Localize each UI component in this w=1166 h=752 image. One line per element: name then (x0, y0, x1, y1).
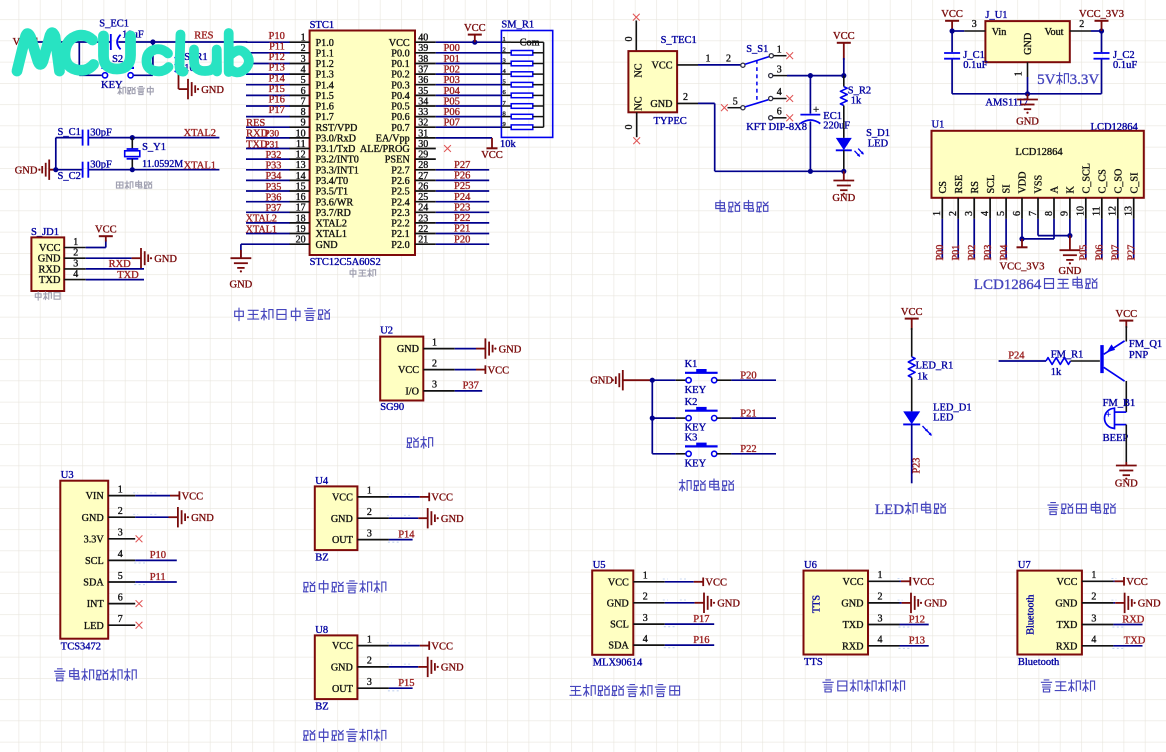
wire (246, 233, 290, 235)
svg-text:36: 36 (418, 75, 428, 86)
module U8 BZ (315, 625, 358, 713)
svg-text:GND: GND (607, 598, 629, 609)
svg-text:P01: P01 (444, 54, 460, 65)
svg-text:BZ: BZ (315, 702, 328, 713)
buzzer FM_B1 BEEP (1103, 398, 1136, 444)
svg-text:0.1uF: 0.1uF (963, 60, 987, 71)
pin 29 (415, 150, 436, 161)
svg-text:P24: P24 (454, 192, 471, 203)
svg-text:4: 4 (73, 269, 78, 280)
module U6 TTS (804, 560, 869, 668)
svg-text:28: 28 (418, 160, 428, 171)
wire keys bus (651, 380, 653, 454)
svg-text:GND: GND (1138, 599, 1161, 610)
text voice module title (823, 680, 904, 692)
svg-text:GND: GND (650, 99, 672, 110)
wire P23 (436, 211, 489, 213)
svg-text:KEY: KEY (685, 385, 707, 396)
svg-text:P3.7/RD: P3.7/RD (316, 208, 351, 219)
svg-text:P32: P32 (266, 150, 282, 161)
svg-text:VCC: VCC (901, 307, 923, 318)
wire U8 GND (389, 666, 418, 668)
pin 39 (415, 43, 436, 54)
pin 40 (415, 33, 436, 44)
svg-text:VCC: VCC (833, 31, 855, 42)
wire (246, 190, 290, 192)
svg-text:0: 0 (624, 37, 635, 42)
pin 2 (868, 592, 900, 603)
node xtal2 junction (130, 135, 135, 140)
pin 2 (357, 656, 389, 667)
svg-text:RST/VPD: RST/VPD (316, 123, 358, 134)
wire U5 GND (665, 602, 695, 604)
wire U7 VCC (1113, 580, 1114, 582)
svg-text:P21: P21 (454, 224, 470, 235)
svg-text:VCC: VCC (389, 38, 410, 49)
svg-text:VCC: VCC (332, 641, 353, 652)
svg-text:1: 1 (118, 484, 123, 495)
power VCC (buzzer) (1116, 309, 1138, 328)
ground (U8) (418, 657, 464, 677)
pin 12 (1108, 198, 1119, 219)
pin 4 (868, 635, 900, 646)
svg-text:P21: P21 (740, 408, 756, 419)
svg-text:P23: P23 (454, 203, 470, 214)
svg-text:VCC: VCC (941, 9, 963, 20)
svg-text:3: 3 (878, 613, 883, 624)
svg-text:GND: GND (82, 513, 104, 524)
wire U6 VCC (900, 580, 901, 582)
svg-text:VCC: VCC (481, 150, 503, 161)
svg-text:4: 4 (980, 211, 991, 216)
svg-text:RXD: RXD (109, 259, 132, 270)
svg-text:P2.1: P2.1 (391, 229, 409, 240)
wire P01 (436, 63, 502, 65)
svg-text:RES: RES (194, 31, 213, 42)
svg-text:RXD: RXD (842, 641, 864, 652)
svg-text:LED: LED (84, 621, 104, 632)
wire JD1 RXD (86, 268, 144, 270)
svg-text:2: 2 (301, 43, 306, 54)
ground (U2) (476, 338, 522, 358)
svg-text:P37: P37 (463, 380, 479, 391)
ground (U5) (695, 593, 741, 613)
svg-text:P07: P07 (1111, 245, 1122, 261)
svg-text:P2.0: P2.0 (391, 240, 409, 251)
svg-text:XTAL1: XTAL1 (184, 160, 216, 171)
pushbutton S_S2 KEY (101, 54, 134, 91)
resistor network SM_R1 10k (500, 19, 553, 150)
pin 10 (1076, 198, 1087, 219)
resistor S_R1 10k (175, 42, 208, 89)
wire P07 (436, 126, 502, 128)
svg-text:GND: GND (154, 254, 177, 265)
svg-text:GND: GND (1059, 266, 1082, 277)
pin 7 (108, 614, 135, 625)
wire LED top (911, 328, 913, 357)
svg-text:EA/Vpp: EA/Vpp (376, 134, 410, 145)
svg-text:17: 17 (296, 203, 306, 214)
svg-text:6: 6 (777, 107, 782, 118)
pin 2 GND (677, 92, 698, 104)
pin 3 (964, 19, 985, 31)
svg-text:18: 18 (296, 213, 306, 224)
svg-text:P22: P22 (454, 213, 470, 224)
svg-text:P06: P06 (1095, 245, 1106, 261)
node crystal gnd junction (53, 167, 58, 172)
svg-text:38: 38 (418, 54, 428, 65)
svg-text:220uF: 220uF (823, 121, 850, 132)
wire P23 (911, 424, 913, 483)
node K junction (1067, 233, 1072, 238)
svg-text:5: 5 (118, 571, 123, 582)
pin 1 (GND) (1013, 62, 1027, 77)
pin 16 (289, 192, 309, 203)
pin 34 (415, 96, 436, 107)
svg-text:INT: INT (87, 599, 105, 610)
pin 11 (1092, 198, 1103, 219)
svg-text:1k: 1k (851, 96, 862, 107)
svg-text:U2: U2 (380, 326, 393, 337)
wire U3 VCC (135, 495, 170, 497)
no connect U3 pin 7 (136, 622, 143, 629)
svg-text:P01: P01 (951, 245, 962, 261)
no connect switch pin1 (786, 52, 793, 59)
wire JD1 GND (86, 257, 132, 259)
svg-text:10k: 10k (500, 139, 517, 150)
svg-text:GND: GND (397, 344, 419, 355)
watermark MCUclub (17, 33, 249, 73)
text MCU value caption (350, 269, 375, 277)
wire key K1 left (652, 379, 686, 381)
svg-text:24: 24 (418, 203, 428, 214)
svg-text:J_U1: J_U1 (985, 10, 1007, 21)
capacitor EC1 220uF (800, 76, 850, 172)
svg-text:GND: GND (1023, 33, 1034, 55)
svg-text:S_Y1: S_Y1 (142, 142, 166, 153)
svg-text:XTAL2: XTAL2 (246, 214, 277, 225)
svg-text:P2.2: P2.2 (391, 219, 409, 230)
pin 18 (289, 213, 309, 224)
svg-text:13: 13 (1124, 206, 1135, 216)
power VCC (supply) (833, 31, 855, 60)
svg-text:1: 1 (432, 337, 437, 348)
svg-text:GND: GND (441, 663, 464, 674)
svg-text:3: 3 (503, 57, 506, 64)
svg-text:C_CS: C_CS (1097, 169, 1108, 194)
module U2 SG90 servo (380, 326, 423, 413)
svg-text:A: A (1050, 186, 1061, 194)
svg-text:35: 35 (418, 86, 428, 97)
pin 2 (948, 198, 959, 219)
ground (U7) (1115, 593, 1161, 613)
svg-text:P07: P07 (444, 118, 460, 129)
svg-text:1k: 1k (917, 372, 928, 383)
node vin junction (950, 28, 955, 33)
wire P20 (436, 243, 489, 245)
svg-text:U3: U3 (61, 470, 74, 481)
pin 36 (415, 75, 436, 86)
LED LED_D1 (903, 402, 971, 435)
pin 1 (108, 484, 135, 495)
text temperature sensor title (570, 685, 680, 697)
svg-text:VCC: VCC (431, 641, 453, 652)
power VCC (EA/Vpp) (481, 138, 503, 161)
svg-text:VCC: VCC (913, 577, 935, 588)
pin 23 (415, 213, 436, 224)
transistor FM_Q1 PNP (1100, 339, 1162, 381)
svg-text:P13: P13 (909, 636, 925, 647)
svg-text:P0.4: P0.4 (391, 91, 409, 102)
svg-text:RS: RS (970, 181, 981, 194)
svg-text:P02: P02 (444, 65, 460, 76)
wire buzzer to gnd (1125, 425, 1127, 462)
svg-text:1: 1 (367, 486, 372, 497)
no connect switch pin6 (786, 114, 793, 121)
power VCC (MCU) (464, 23, 486, 42)
svg-text:4: 4 (643, 634, 648, 645)
svg-text:C_SCL: C_SCL (1081, 163, 1092, 194)
svg-text:GND: GND (1055, 599, 1077, 610)
svg-text:P1.3: P1.3 (316, 70, 334, 81)
wire key K1 right (717, 379, 776, 381)
svg-text:9: 9 (1060, 211, 1071, 216)
svg-text:21: 21 (418, 235, 428, 246)
wire P05 (1085, 219, 1087, 259)
wire P05 (436, 105, 502, 107)
no connect U3 pin 3 (136, 535, 143, 542)
svg-text:+: + (813, 104, 819, 116)
svg-text:3: 3 (118, 528, 123, 539)
capacitor J_C2 0.1uF (1094, 31, 1138, 94)
svg-text:P2.5: P2.5 (391, 187, 409, 198)
pin 3 (964, 198, 975, 219)
svg-text:U4: U4 (315, 476, 329, 487)
wire JD1 TXD (86, 279, 144, 281)
wire P06 (436, 116, 502, 118)
wire VDD/A to 3V3 (1022, 219, 1054, 239)
svg-text:9: 9 (503, 121, 506, 128)
wire key K2 left (652, 417, 686, 419)
svg-text:0: 0 (624, 125, 635, 130)
pin 27 (415, 171, 436, 182)
node VCC rail junction (841, 73, 846, 78)
pin 38 (415, 54, 436, 65)
power VCC (U5) (694, 578, 727, 589)
wire (246, 116, 290, 118)
svg-text:TTS: TTS (812, 595, 823, 613)
svg-text:FM_R1: FM_R1 (1051, 350, 1084, 361)
svg-text:P1.6: P1.6 (316, 102, 334, 113)
display U1 LCD12864 (932, 120, 1144, 198)
svg-text:1: 1 (1091, 570, 1096, 581)
svg-text:K1: K1 (685, 359, 698, 370)
svg-text:BZ: BZ (315, 553, 328, 564)
svg-text:PNP: PNP (1129, 350, 1148, 361)
svg-text:U7: U7 (1018, 560, 1031, 571)
svg-text:P15: P15 (398, 678, 414, 689)
wire P06 (1101, 219, 1103, 259)
pin 1 (357, 634, 389, 645)
svg-text:VIN: VIN (86, 491, 105, 502)
svg-text:LCD12864: LCD12864 (974, 277, 1042, 293)
wire P27 (1133, 219, 1135, 259)
svg-text:XTAL1: XTAL1 (316, 229, 347, 240)
node gnd rail junction (1025, 91, 1030, 96)
wire P24 (436, 201, 489, 203)
svg-text:6: 6 (301, 86, 306, 97)
svg-text:4: 4 (777, 87, 782, 98)
wire P02 (973, 219, 975, 259)
svg-text:22: 22 (418, 224, 428, 235)
svg-text:P04: P04 (999, 245, 1010, 261)
power VCC (U6) (901, 577, 934, 588)
svg-text:U1: U1 (932, 120, 945, 131)
svg-text:P05: P05 (444, 96, 460, 107)
pin 2 (423, 358, 454, 369)
svg-text:P04: P04 (444, 86, 461, 97)
svg-text:SDA: SDA (83, 578, 104, 589)
wire Vin (952, 30, 964, 32)
svg-text:P10: P10 (269, 31, 285, 42)
svg-text:GND: GND (15, 166, 38, 177)
wire key K3 right (717, 453, 776, 455)
svg-text:P31: P31 (265, 140, 280, 150)
svg-text:VCC: VCC (1116, 309, 1138, 320)
svg-text:P33: P33 (266, 161, 282, 172)
pin 3 (868, 613, 900, 624)
svg-text:SCL: SCL (610, 620, 629, 631)
wire U4 GND (389, 517, 418, 519)
power VCC (reset net) (13, 37, 37, 48)
svg-text:20: 20 (296, 235, 306, 246)
svg-text:TXD: TXD (1124, 636, 1146, 647)
pin 6 (289, 86, 309, 97)
wire collector (1125, 381, 1127, 412)
node rail junction EC1 (808, 169, 813, 174)
svg-text:OUT: OUT (332, 684, 354, 695)
wire P03 (989, 219, 991, 259)
node reset junction 1 (150, 39, 155, 44)
regulator J_U1 AMS1117 (985, 10, 1069, 108)
wire VCC pin40 (436, 41, 502, 43)
svg-text:VCC: VCC (1126, 577, 1148, 588)
svg-text:1: 1 (503, 36, 506, 43)
wire VSS/K to GND (1038, 219, 1070, 236)
wire EA/Vpp (436, 137, 492, 139)
svg-text:26: 26 (418, 181, 428, 192)
svg-text:GND: GND (201, 85, 224, 96)
svg-text:P20: P20 (740, 370, 756, 381)
svg-text:16: 16 (296, 192, 306, 203)
svg-text:8: 8 (301, 107, 306, 118)
power VCC_3V3 (LCD) (1000, 239, 1045, 273)
svg-text:3: 3 (964, 211, 975, 216)
no connect switch pin5 (721, 104, 728, 111)
wire key K3 left (652, 453, 686, 455)
svg-text:GND: GND (191, 513, 214, 524)
pin 15 (289, 181, 309, 192)
pin 7 (289, 96, 309, 107)
crystal S_Y1 11.0592M (125, 138, 184, 170)
no connect pin30 (444, 145, 451, 152)
svg-text:P17: P17 (269, 105, 285, 116)
svg-text:LED_D1: LED_D1 (933, 402, 972, 413)
svg-text:C_SO: C_SO (1113, 169, 1124, 194)
svg-text:2: 2 (1079, 19, 1084, 30)
wire reset VCC to RES (37, 41, 248, 43)
svg-text:P06: P06 (444, 107, 460, 118)
svg-text:VCC: VCC (39, 243, 61, 254)
pin 33 (415, 107, 436, 118)
svg-text:MLX90614: MLX90614 (593, 657, 643, 668)
svg-text:4: 4 (878, 635, 883, 646)
module U7 Bluetooth (1017, 560, 1082, 668)
svg-text:25: 25 (418, 192, 428, 203)
wire U3 P10 (135, 559, 177, 561)
svg-text:11.0592M: 11.0592M (142, 159, 183, 170)
pin 12 (289, 150, 309, 161)
pin 3 (108, 528, 135, 539)
svg-text:P0.1: P0.1 (391, 59, 409, 70)
svg-text:S_TEC1: S_TEC1 (661, 35, 697, 46)
svg-text:4: 4 (118, 549, 123, 560)
svg-text:P1.1: P1.1 (316, 48, 334, 59)
svg-text:P13: P13 (269, 63, 285, 74)
pin 25 (415, 192, 436, 203)
pin 1 (1082, 570, 1114, 581)
svg-text:1: 1 (643, 571, 648, 582)
LED S_D1 (836, 106, 890, 172)
svg-text:GND: GND (441, 514, 464, 525)
svg-text:P17: P17 (693, 614, 709, 625)
svg-text:SDA: SDA (608, 641, 629, 652)
wire P04 (436, 94, 502, 96)
pin 1 (868, 570, 900, 581)
power VCC (U8) (420, 641, 453, 652)
pin 14 (289, 171, 309, 182)
svg-text:TCS3472: TCS3472 (61, 641, 101, 652)
capacitor S_C2 30pF (58, 160, 112, 182)
svg-text:VCC_3V3: VCC_3V3 (1079, 9, 1124, 20)
wire U8 VCC (389, 645, 420, 647)
svg-text:2: 2 (1091, 592, 1096, 603)
svg-text:P00: P00 (444, 43, 460, 54)
capacitor J_C1 0.1uF (944, 31, 988, 94)
svg-text:NC: NC (634, 63, 645, 77)
ground (crystal) (15, 160, 56, 180)
svg-text:2: 2 (948, 211, 959, 216)
svg-text:ALE/PROG: ALE/PROG (360, 144, 410, 155)
no connect TEC1 bottom (633, 137, 640, 144)
svg-text:P16: P16 (269, 95, 285, 106)
svg-text:5: 5 (503, 79, 506, 86)
svg-text:34: 34 (418, 96, 428, 107)
svg-text:3.3V: 3.3V (84, 534, 105, 545)
wire P01 (957, 219, 959, 259)
node rail junction LED (841, 169, 846, 174)
svg-text:40: 40 (418, 33, 428, 44)
svg-text:VCC: VCC (705, 578, 727, 589)
svg-text:5: 5 (301, 75, 306, 86)
svg-text:XTAL1: XTAL1 (246, 224, 277, 235)
svg-text:VCC: VCC (464, 23, 486, 34)
wire P02 (436, 73, 502, 75)
svg-text:14: 14 (296, 171, 306, 182)
node keys junction 1 (650, 378, 655, 383)
pin 4 (1082, 635, 1114, 646)
pin 32 (415, 118, 436, 129)
